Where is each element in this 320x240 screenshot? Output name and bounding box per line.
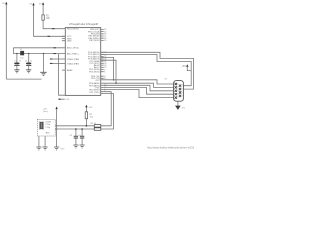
svg-text:3: 3	[177, 90, 178, 92]
crystal block labels	[45, 121, 51, 134]
IC U1 left pin labels	[67, 28, 80, 72]
svg-text:C 22p: C 22p	[45, 127, 50, 129]
wire AVCC rail	[13, 53, 65, 55]
svg-text:GND: GND	[60, 149, 65, 151]
svg-text:5: 5	[104, 72, 105, 74]
wire RESET to IC pin	[43, 20, 65, 29]
ground under crystal block (left)	[36, 147, 41, 150]
wire bus line 2 to connector pin 2	[101, 83, 174, 87]
wire bus line 1 to connector pin 1	[101, 80, 174, 84]
svg-text:10k: 10k	[89, 116, 93, 118]
svg-text:AVCC (PC6): AVCC (PC6)	[67, 47, 79, 50]
wire to ground rail	[6, 78, 41, 80]
junction dot	[115, 82, 117, 84]
svg-text:10u: 10u	[20, 57, 23, 59]
supply +5V arrow 2 with wire to AVCC pin	[30, 3, 66, 37]
junction flag on AVCC rail	[53, 53, 56, 55]
ground under supply stub (right)	[54, 147, 59, 150]
svg-text:19: 19	[104, 40, 106, 42]
IC U1 right pin numbers	[104, 29, 106, 92]
svg-text:7: 7	[182, 89, 183, 91]
svg-text:AVcc/GND a.: AVcc/GND a.	[67, 52, 80, 55]
ground under C1	[14, 70, 19, 73]
svg-text:GND: GND	[45, 133, 50, 135]
svg-text:+5V: +5V	[182, 65, 187, 68]
supply +5V arrow 3	[39, 2, 45, 15]
supply +5V arrow at crystal block	[55, 107, 57, 148]
svg-text:16: 16	[25, 60, 27, 62]
wire XTAL1 with net flag	[50, 58, 66, 60]
series resistors R3/R4 on serial lines	[91, 123, 101, 131]
svg-text:R3 1k: R3 1k	[91, 123, 97, 125]
supply +5V arrow near connector	[182, 64, 192, 70]
svg-text:4: 4	[177, 94, 178, 96]
svg-text:8: 8	[182, 92, 183, 94]
junction flag on AVCC wire	[48, 35, 51, 37]
ground under crystal block (middle)	[43, 147, 48, 150]
ground under C2	[26, 70, 31, 73]
inductor L1 on AVCC rail	[20, 49, 24, 59]
capacitor C3	[69, 128, 78, 145]
wire bus line 4 to connector pin 4	[101, 87, 174, 94]
svg-text:5: 5	[177, 97, 178, 99]
wire bus line 3 to connector pin 3	[101, 85, 174, 91]
wire RXD down and left to crystal box	[55, 92, 111, 126]
svg-text:GND: GND	[67, 41, 72, 43]
svg-text:2: 2	[177, 87, 178, 89]
crystal block right pin stubs	[55, 126, 58, 129]
wire RTS to connector right side	[101, 52, 194, 89]
svg-text:PD1 (TXD): PD1 (TXD)	[89, 92, 99, 94]
svg-text:X1: X1	[165, 79, 168, 81]
junction dot C2 stub	[28, 53, 29, 54]
svg-text:16: 16	[19, 60, 21, 62]
svg-text:5V: 5V	[2, 3, 5, 5]
connector X1 (SUB-D9)	[165, 79, 184, 102]
IC U1 right pin labels	[88, 29, 100, 94]
ground under rail (with stub)	[40, 54, 46, 76]
svg-text:(Vcc): (Vcc)	[43, 111, 48, 113]
svg-text:10k: 10k	[46, 18, 51, 20]
svg-text:OC2: OC2	[95, 80, 100, 82]
svg-text:1: 1	[177, 83, 178, 85]
svg-text:GND: GND	[65, 99, 70, 101]
svg-text:Q 16M: Q 16M	[45, 121, 51, 123]
svg-text:ATmega8 oder ATmega48: ATmega8 oder ATmega48	[69, 23, 99, 26]
svg-text:AREF: AREF	[67, 69, 73, 72]
supply +5V arrow (far left)	[2, 2, 7, 79]
svg-text:GND: GND	[181, 107, 186, 109]
svg-text:PD3 (INT1): PD3 (INT1)	[89, 71, 100, 73]
junction flag on RESET wire	[52, 28, 55, 30]
ground under C4	[80, 145, 85, 148]
IC U1 left pin stub AREF	[62, 69, 65, 71]
junction flag on VCC rail	[53, 47, 56, 49]
resistor R1 (reset pull-up)	[42, 15, 51, 20]
wire XTAL2 with net flag	[50, 62, 66, 64]
svg-text:http://www.hobby-elektronik.de: http://www.hobby-elektronik.de/avr-rs232	[147, 146, 195, 150]
capacitor C4	[78, 128, 84, 145]
svg-text:+5V: +5V	[88, 107, 92, 109]
IC U1 ATmega8 body	[65, 28, 100, 96]
wire VCC rail	[13, 47, 65, 49]
svg-text:C3: C3	[69, 135, 73, 137]
resistor R2 (pull-up) with +5V arrow	[85, 105, 94, 127]
junction dot	[113, 79, 115, 81]
svg-text:Reset (PC6): Reset (PC6)	[67, 28, 79, 31]
svg-text:6: 6	[182, 85, 183, 87]
IC U1 right pin stubs	[101, 29, 104, 78]
svg-text:9: 9	[182, 95, 183, 97]
IC U1 left pin stubs (VCC/GND pins)	[62, 36, 65, 40]
svg-text:1u: 1u	[30, 60, 33, 62]
ground below connector X1	[175, 101, 186, 110]
crystal block bottom stubs	[39, 136, 45, 147]
wire rail left bracket	[12, 48, 14, 54]
junction dot gnd stub	[43, 53, 44, 54]
junction dot C1 stub	[16, 53, 17, 54]
svg-text:XTAL1 (PB6): XTAL1 (PB6)	[67, 58, 79, 61]
wire DTR to connector right side	[101, 55, 192, 86]
svg-text:5V: 5V	[39, 4, 42, 6]
wire GND drop to IC bottom corner	[59, 54, 66, 96]
crystal block (dashed box)	[37, 120, 55, 137]
capacitor C1 (electrolytic 1u)	[14, 54, 21, 70]
svg-text:PB5 (SCK): PB5 (SCK)	[89, 40, 99, 42]
ground under C3	[73, 145, 78, 148]
wire PC2 down to bus	[101, 57, 114, 79]
wire PC3 down to bus	[101, 60, 116, 83]
capacitor C2 (electrolytic 1u)	[25, 54, 33, 70]
wire bus line 5 to connector pin 5	[101, 90, 174, 98]
label +5V above crystal block	[43, 108, 48, 113]
svg-text:C 22p: C 22p	[45, 124, 50, 126]
wire TXD down and left to crystal box	[55, 94, 113, 129]
net label flag GND	[58, 99, 70, 101]
crystal Q1 symbol	[40, 122, 43, 130]
svg-text:5V: 5V	[30, 4, 33, 6]
svg-text:XTAL2 (PB7): XTAL2 (PB7)	[67, 62, 79, 65]
